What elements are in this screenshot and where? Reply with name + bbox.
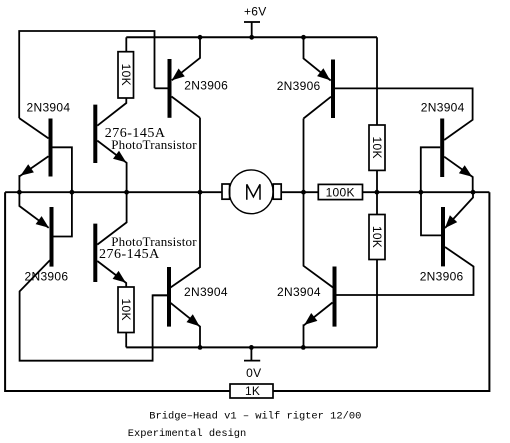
- wire right outer loop: [273, 192, 489, 391]
- node +6V junction dot: [249, 35, 254, 40]
- node mid-left rail dot C: [124, 190, 129, 195]
- wire Q1 emitter from +6V rail: [172, 37, 200, 80]
- phototransistor PT1 276-145A base bar: [93, 105, 97, 163]
- node top rail dot left: [198, 35, 203, 40]
- resistor R6 label 1K: [245, 384, 260, 398]
- wire Q2 base to Q4 collector: [335, 88, 473, 140]
- phototransistor PT2 276-145A base bar: [93, 224, 97, 282]
- phototransistor PT1 label 276-145A: [105, 126, 166, 141]
- wire mid-left rail: [5, 191, 222, 193]
- motor M1 right terminal: [273, 184, 281, 199]
- wire Q8 emitter diagonal to 0V rail: [304, 303, 333, 348]
- wire motor right to 100K: [281, 191, 318, 193]
- node mid-left rail dot B: [70, 190, 75, 195]
- svg-text:2N3906: 2N3906: [25, 269, 69, 283]
- svg-text:Bridge–Head v1 – wilf rigter: Bridge–Head v1 – wilf rigter 12/00: [149, 410, 361, 422]
- wire Q3 collector diagonal: [19, 118, 48, 138]
- svg-text:2N3906: 2N3906: [277, 79, 321, 93]
- node mid-right rail dot E: [418, 190, 423, 195]
- wire R4 bottom lead to 0V rail: [376, 260, 378, 348]
- transistor Q3 emitter arrow (NPN): [21, 164, 34, 175]
- svg-text:0V: 0V: [246, 366, 261, 380]
- wire +6V top rail: [126, 36, 377, 38]
- transistor Q4 label 2N3904: [421, 100, 465, 114]
- wire R3 bottom lead to mid rail: [376, 170, 378, 192]
- wire R1 bottom lead to phototransistor collector: [97, 98, 126, 126]
- transistor Q4 2N3904 base bar: [440, 119, 444, 178]
- node motor right dot: [301, 190, 306, 195]
- transistor Q1 emitter arrow (PNP): [172, 69, 185, 81]
- resistor R3 10K top-right box: [369, 125, 385, 170]
- node top rail dot right: [301, 35, 306, 40]
- wire R2 bottom lead to 0V rail: [125, 333, 127, 348]
- title line 2: [128, 428, 246, 440]
- phototransistor PT2 label PhotoTransistor: [111, 234, 197, 249]
- transistor Q7 2N3904 base bar: [167, 267, 171, 327]
- node mid-left rail dot A: [17, 190, 22, 195]
- svg-text:100K: 100K: [326, 185, 355, 199]
- wire top-left route (Q3 collector to Q1 base): [19, 31, 154, 118]
- svg-text:2N3904: 2N3904: [277, 285, 321, 299]
- wire Q3 emitter diagonal: [19, 156, 48, 192]
- svg-text:10K: 10K: [370, 226, 384, 248]
- wire Q5 emitter diagonal from mid rail: [19, 192, 48, 228]
- wire R4 top lead from mid rail: [376, 192, 378, 214]
- svg-text:10K: 10K: [119, 299, 133, 321]
- wire left outer loop: [5, 192, 230, 391]
- wire mid-right rail: [363, 191, 490, 193]
- transistor Q6 2N3906 base bar: [441, 207, 445, 266]
- resistor R2 10K bottom-left box: [118, 287, 134, 333]
- wire Q4 base: [421, 147, 440, 192]
- svg-text:276-145A: 276-145A: [99, 247, 160, 262]
- transistor Q4 emitter arrow (NPN): [459, 165, 472, 177]
- transistor Q5 emitter arrow (PNP): [36, 216, 49, 228]
- svg-text:1K: 1K: [245, 384, 260, 398]
- wire Q6 collector diagonal to Q8 base: [337, 247, 474, 295]
- transistor Q7 label 2N3904: [184, 285, 228, 299]
- wire Q7 base: [153, 294, 167, 296]
- transistor Q7 emitter arrow (NPN): [187, 314, 200, 326]
- wire Q4 emitter diagonal: [444, 157, 473, 193]
- node mid-right rail dot F: [471, 190, 476, 195]
- wire Q3 base: [53, 147, 72, 192]
- phototransistor PT2 label 276-145A: [99, 247, 160, 262]
- wire Q5 base: [54, 192, 72, 236]
- transistor Q5 label 2N3906: [25, 269, 69, 283]
- wire Q8 collector diagonal from motor node: [304, 192, 334, 287]
- transistor Q6 emitter arrow (PNP): [445, 215, 457, 228]
- transistor Q3 2N3904 base bar: [49, 119, 53, 177]
- svg-text:2N3904: 2N3904: [421, 100, 465, 114]
- wire Q2 collector vertical to motor node: [303, 119, 305, 193]
- wire PT2 emitter diagonal to 10K resistor: [97, 261, 126, 287]
- motor M1 label M: [247, 184, 260, 199]
- resistor R1 10K top-left box: [118, 52, 134, 98]
- +6V power symbol: [244, 4, 267, 37]
- node motor left dot: [198, 190, 203, 195]
- transistor Q2 2N3906 base bar: [331, 60, 335, 119]
- svg-text:2N3904: 2N3904: [27, 101, 71, 115]
- phototransistor PT1 label PhotoTransistor: [111, 137, 197, 152]
- resistor R1 label 10K: [119, 64, 133, 86]
- motor M1 left terminal: [222, 184, 230, 199]
- transistor Q2 emitter arrow (PNP): [317, 68, 330, 80]
- wire Q1 collector diagonal: [172, 97, 201, 118]
- node 0V rail dot left: [198, 345, 203, 350]
- wire Q1 collector vertical to motor node: [199, 118, 201, 192]
- svg-text:10K: 10K: [370, 137, 384, 159]
- transistor Q1 label 2N3906: [184, 78, 228, 92]
- svg-text:10K: 10K: [119, 64, 133, 86]
- resistor R4 10K bottom-right box: [369, 215, 385, 260]
- node 0V rail dot right: [301, 345, 306, 350]
- svg-text:+6V: +6V: [244, 4, 267, 18]
- svg-text:2N3906: 2N3906: [184, 78, 228, 92]
- wire Q2 emitter from +6V rail: [304, 37, 331, 80]
- resistor R6 1K box: [230, 384, 273, 398]
- motor M1 circle: [229, 170, 273, 214]
- transistor Q8 2N3904 base bar: [333, 267, 337, 327]
- wire R1 top lead: [125, 37, 127, 51]
- wire Q6 base: [421, 192, 441, 235]
- resistor R5 100K box: [318, 184, 362, 199]
- resistor R2 label 10K: [119, 299, 133, 321]
- transistor Q8 label 2N3904: [277, 285, 321, 299]
- resistor R5 label 100K: [326, 185, 355, 199]
- wire PT2 collector diagonal from mid rail: [97, 192, 126, 244]
- svg-text:PhotoTransistor: PhotoTransistor: [111, 137, 197, 152]
- ground 0V symbol: [244, 347, 261, 380]
- wire PT1 emitter diagonal to mid rail: [97, 141, 126, 193]
- transistor Q6 label 2N3906: [420, 270, 464, 284]
- svg-text:2N3906: 2N3906: [420, 270, 464, 284]
- transistor Q2 label 2N3906: [277, 79, 321, 93]
- wire Q5 collector diagonal and route to Q7 base: [20, 260, 167, 360]
- wire 0V rail: [126, 346, 377, 348]
- node 0V junction dot: [249, 345, 254, 350]
- wire Q1 base: [155, 87, 168, 89]
- wire R3 top lead from +6V rail: [376, 37, 378, 125]
- transistor Q5 2N3906 base bar: [50, 207, 54, 267]
- svg-text:Experimental design: Experimental design: [128, 428, 246, 440]
- transistor Q3 label 2N3904: [27, 101, 71, 115]
- wire Q7 emitter diagonal to 0V rail: [171, 303, 200, 348]
- svg-text:2N3904: 2N3904: [184, 285, 228, 299]
- transistor Q8 emitter arrow (NPN): [304, 313, 317, 325]
- resistor R3 label 10K: [370, 137, 384, 159]
- phototransistor PT2 emitter arrow (NPN): [113, 271, 126, 283]
- wire Q7 collector diagonal from motor node: [171, 192, 201, 287]
- wire Q2 collector diagonal: [304, 97, 332, 119]
- transistor Q1 2N3906 base bar: [168, 59, 172, 118]
- phototransistor PT1 emitter arrow (NPN): [113, 151, 126, 163]
- resistor R4 label 10K: [370, 226, 384, 248]
- node mid-right rail dot D: [375, 190, 380, 195]
- wire Q6 emitter diagonal from mid rail: [445, 192, 473, 228]
- title line 1: [149, 410, 361, 422]
